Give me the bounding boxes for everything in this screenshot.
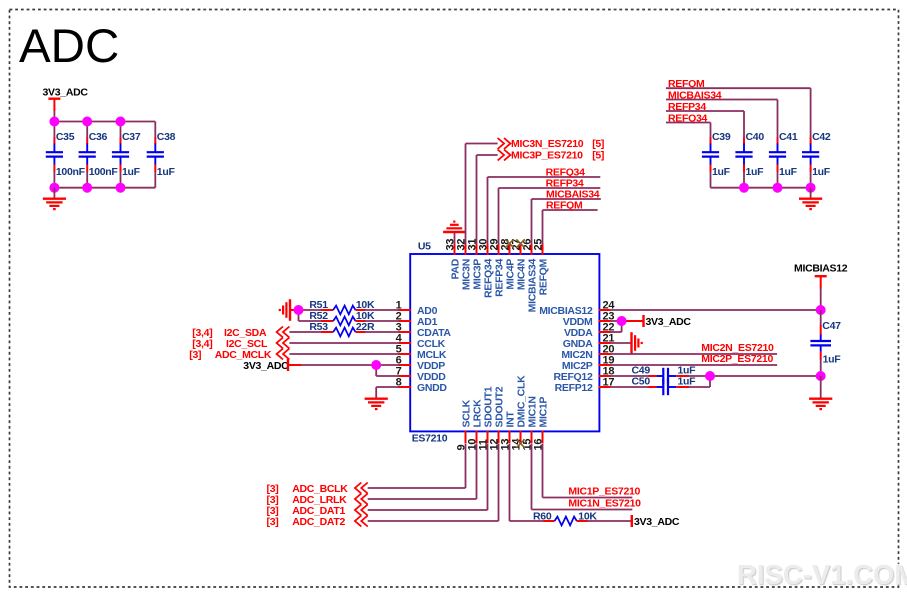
U5 pin 18 (REFQ12) <box>553 366 614 383</box>
junction dot R51 <box>294 305 304 315</box>
U5 pin 6 (VDDP) <box>396 355 446 372</box>
svg-text:3V3_ADC: 3V3_ADC <box>43 87 89 99</box>
svg-text:1uF: 1uF <box>746 166 765 178</box>
svg-text:100nF: 100nF <box>89 166 119 178</box>
node REFP34 (net label + wire) <box>666 101 744 138</box>
capacitor C47 1uF <box>810 310 841 376</box>
junction dot VDDM <box>617 316 627 326</box>
svg-text:1uF: 1uF <box>712 166 731 178</box>
svg-text:1uF: 1uF <box>823 353 842 365</box>
node ADC_BCLK (pin wire) <box>267 444 466 495</box>
no-connect X pin 14 <box>516 439 524 447</box>
resistor R52 10K <box>299 310 400 325</box>
U5 pin 12 (SDOUT2) <box>488 386 505 450</box>
junction dot MICBIAS12/pin24 <box>816 305 826 315</box>
U5 pin 23 (VDDM) <box>563 311 615 328</box>
svg-text:1uF: 1uF <box>157 166 176 178</box>
svg-text:C39: C39 <box>712 131 731 143</box>
svg-text:MIC3P_ES7210: MIC3P_ES7210 <box>511 150 583 162</box>
svg-text:1uF: 1uF <box>678 375 697 387</box>
svg-text:[5]: [5] <box>592 150 604 162</box>
svg-text:3V3_ADC: 3V3_ADC <box>243 360 289 372</box>
op-amp U5 ES7210 (IC body) <box>410 254 599 431</box>
U5 pin 13 (INT) <box>499 411 516 451</box>
power 3V3_ADC (pin 6 VDDP) <box>243 359 399 372</box>
U5 pin 14 (DMIC_CLK) <box>510 375 527 451</box>
svg-text:U5: U5 <box>418 241 431 253</box>
junction dots cap bank <box>49 117 125 193</box>
svg-text:R60: R60 <box>533 510 552 522</box>
wire + node MIC2P_ES7210 (pin 19) <box>611 353 778 365</box>
capacitor C40 1uF <box>735 131 764 188</box>
svg-text:ES7210: ES7210 <box>412 433 448 445</box>
wire + node MIC3N_ES7210 (pin 32) <box>466 138 605 244</box>
U5 pin 15 (MIC1N) <box>521 396 538 450</box>
svg-text:C38: C38 <box>157 131 176 143</box>
wire + node MIC1N_ES7210 (pin 15) <box>532 444 642 510</box>
wire: pin 24 MICBIAS12 rail <box>611 309 821 311</box>
no-connect X pin 27 <box>516 239 524 247</box>
svg-text:REFP12: REFP12 <box>555 382 593 394</box>
wire + node MIC1P_ES7210 (pin 16) <box>543 444 641 498</box>
U5 pin 31 (MIC3P) <box>466 239 483 290</box>
ground (below C42) <box>799 188 822 209</box>
svg-text:1uF: 1uF <box>122 166 141 178</box>
U5 pin 8 (GNDD) <box>396 377 448 394</box>
svg-text:MIC1P: MIC1P <box>537 397 549 428</box>
svg-text:REFQM: REFQM <box>546 199 583 211</box>
svg-text:RISC-V1.COM: RISC-V1.COM <box>737 559 907 590</box>
resistor R60 10K + power 3V3_ADC (pin 13 INT) <box>510 444 680 528</box>
capacitor C35 100nF <box>46 122 86 188</box>
U5 pin 33 (PAD) <box>444 239 461 280</box>
U5 pin 32 (MIC3N) <box>455 239 472 290</box>
wire + node REFQM (pin 25) <box>543 199 598 244</box>
U5 pin 22 (VDDA) <box>564 322 614 339</box>
U5 pin 2 (AD1) <box>396 311 438 328</box>
svg-text:[3]: [3] <box>267 516 279 528</box>
svg-text:MIC1P_ES7210: MIC1P_ES7210 <box>568 486 640 498</box>
wire: cap bank bottom rail <box>54 187 156 189</box>
capacitor C41 1uF <box>769 131 798 188</box>
U5 pin 24 (MICBIAS12) <box>539 300 615 317</box>
node I2C_SCL (pin 4) <box>192 338 399 350</box>
U5 pin 19 (MIC2P) <box>562 355 614 372</box>
node REFQ34 (net label + wire) <box>666 112 711 138</box>
svg-text:C41: C41 <box>779 131 798 143</box>
U5 pin 7 (VDDD) <box>396 366 447 383</box>
wire + node REFP34 (pin 29) <box>499 177 601 244</box>
svg-text:10K: 10K <box>578 510 597 522</box>
junction dot C47 bottom <box>816 371 826 381</box>
junction dots reference bank <box>739 183 816 193</box>
capacitor C37 1uF <box>112 122 141 188</box>
U5 pin 30 (REFQ34) <box>477 239 494 298</box>
node ADC_DAT1 (pin wire) <box>267 444 488 517</box>
wire: cap bank top rail <box>54 121 156 123</box>
node MICBAIS34 (net label + wire) <box>666 89 778 138</box>
U5 pin 17 (REFP12) <box>555 377 615 394</box>
wire: VDDP to VDDD <box>376 365 399 376</box>
U5 pin 1 (AD0) <box>396 300 438 317</box>
svg-text:R53: R53 <box>309 321 328 333</box>
node REFQM (net label + wire) <box>666 78 811 138</box>
power 3V3_ADC (top left) <box>43 87 89 112</box>
U5 pin 21 (GNDA) <box>563 333 615 350</box>
svg-text:C35: C35 <box>56 131 75 143</box>
svg-text:3V3_ADC: 3V3_ADC <box>646 316 692 328</box>
node ADC_MCLK (pin 5) <box>189 349 399 361</box>
svg-text:[5]: [5] <box>592 138 604 150</box>
power 3V3_ADC (pin 23 VDDM) <box>611 315 692 328</box>
wire: 3V3_ADC stub to rail <box>53 111 55 122</box>
svg-text:ADC: ADC <box>19 20 119 73</box>
svg-text:MICBIAS12: MICBIAS12 <box>794 262 848 274</box>
svg-text:1uF: 1uF <box>779 166 798 178</box>
U5 pin 16 (MIC1P) <box>532 397 549 451</box>
svg-text:3V3_ADC: 3V3_ADC <box>634 516 680 528</box>
svg-text:C47: C47 <box>822 320 841 332</box>
U5 pin 9 (SCLK) <box>455 399 472 450</box>
ground (pin 33 PAD) <box>443 222 465 244</box>
U5 pin 4 (CCLK) <box>396 333 446 350</box>
svg-text:C37: C37 <box>122 131 141 143</box>
U5 pin 25 (REFQM) <box>532 239 549 296</box>
svg-text:C50: C50 <box>632 375 651 387</box>
junction dot VDDP <box>371 360 381 370</box>
U5 pin 26 (MICBIAS34) <box>521 239 538 313</box>
U5 pin 5 (MCLK) <box>396 344 447 361</box>
resistor R51 10K <box>299 299 400 314</box>
wire + ground (pin 8 GNDD) <box>365 387 399 409</box>
svg-text:REFQM: REFQM <box>537 258 549 295</box>
svg-text:C40: C40 <box>746 131 765 143</box>
capacitor C39 1uF <box>702 131 731 188</box>
svg-text:100nF: 100nF <box>56 166 86 178</box>
U5 pin 29 (REFP34) <box>488 239 505 297</box>
junction dot C49/C50 <box>705 371 715 381</box>
svg-text:ADC_DAT2: ADC_DAT2 <box>292 516 345 528</box>
resistor R53 22R + node I2C_SDA <box>192 321 399 339</box>
U5 pin 27 (MIC4N) <box>510 239 527 290</box>
wire + node MIC3P_ES7210 (pin 31) <box>477 150 605 245</box>
svg-text:MIC3N_ES7210: MIC3N_ES7210 <box>511 138 584 150</box>
node ADC_DAT2 (pin wire) <box>267 444 499 528</box>
svg-text:[3]: [3] <box>189 349 201 361</box>
power MICBIAS12 <box>794 262 848 310</box>
ground (left of R51) <box>280 299 297 321</box>
node ADC_LRLK (pin wire) <box>267 444 477 506</box>
ground (below C47) <box>809 376 832 409</box>
svg-text:MIC2P_ES7210: MIC2P_ES7210 <box>701 353 773 365</box>
U5 pin 20 (MIC2N) <box>561 344 614 361</box>
svg-text:22R: 22R <box>356 321 375 333</box>
wire: pin 22 VDDA up to VDDM <box>611 321 622 332</box>
U5 pin 11 (SDOUT1) <box>477 386 494 450</box>
svg-text:GNDD: GNDD <box>417 382 447 394</box>
no-connect X pin 28 <box>505 239 513 247</box>
U5 pin 10 (LRCK) <box>466 399 483 451</box>
wire + node REFQ34 (pin 30) <box>488 166 601 244</box>
svg-text:C36: C36 <box>89 131 108 143</box>
ground (pin 21 GNDA) <box>611 332 642 354</box>
wire: reference bank bottom rail <box>711 187 812 189</box>
svg-text:MIC1N_ES7210: MIC1N_ES7210 <box>568 498 641 510</box>
U5 pin 3 (CDATA) <box>396 322 452 339</box>
ground (below C35) <box>43 188 66 209</box>
U5 pin 28 (MIC4P) <box>499 239 516 290</box>
svg-text:C42: C42 <box>812 131 831 143</box>
svg-text:1uF: 1uF <box>812 166 831 178</box>
capacitor C42 1uF <box>802 131 831 188</box>
wire + node MIC2N_ES7210 (pin 20) <box>611 342 778 354</box>
capacitor C36 100nF <box>79 122 119 188</box>
capacitor C50 1uF (pin 17 REFP12) <box>611 375 711 395</box>
wire: R51/R52 junction <box>298 310 300 321</box>
capacitor C49 1uF (pin 18 REFQ12) <box>611 364 821 384</box>
wire + node MICBAIS34 (pin 26) <box>532 188 601 244</box>
capacitor C38 1uF <box>147 122 176 188</box>
